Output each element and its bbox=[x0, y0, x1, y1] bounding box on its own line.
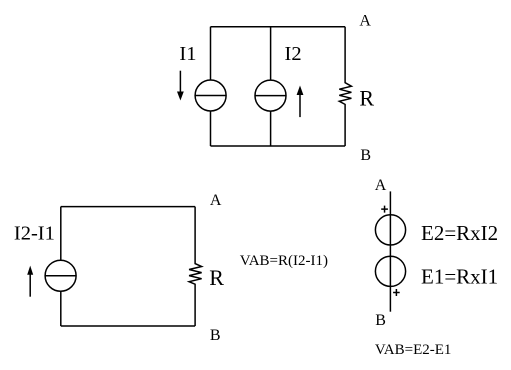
svg-text:I1: I1 bbox=[179, 43, 196, 65]
svg-text:A: A bbox=[359, 12, 371, 29]
svg-text:A: A bbox=[210, 192, 222, 209]
wire left branch (circuit 2) bbox=[60, 207, 62, 326]
arrow I1 direction (down) bbox=[177, 71, 184, 101]
svg-text:B: B bbox=[360, 147, 371, 164]
wire left branch (circuit 1) bbox=[210, 27, 212, 146]
wire top rail node A (circuit 1) bbox=[211, 26, 346, 28]
current source I2-I1 (circle with bar) bbox=[45, 260, 76, 291]
svg-text:I2-I1: I2-I1 bbox=[14, 223, 55, 245]
wire top rail node A (circuit 2) bbox=[61, 206, 195, 208]
wire vertical branch A-B (series E sources) bbox=[389, 191, 391, 311]
plus polarity mark of E2 bbox=[381, 206, 388, 213]
resistor R (circuit 1, right branch with zigzag) bbox=[339, 27, 351, 146]
voltage source E1 (circle) bbox=[375, 256, 405, 286]
svg-text:I2: I2 bbox=[285, 43, 302, 65]
voltage source E2 (circle) bbox=[375, 215, 405, 245]
plus polarity mark of E1 bbox=[393, 289, 400, 296]
arrow I2 direction (up) bbox=[297, 86, 304, 118]
svg-text:R: R bbox=[359, 85, 374, 110]
current source I1 (circle with bar) bbox=[195, 80, 226, 111]
svg-text:VAB=R(I2-I1): VAB=R(I2-I1) bbox=[240, 253, 328, 269]
svg-text:E2=RxI2: E2=RxI2 bbox=[421, 221, 498, 245]
current source I2 (circle with bar) bbox=[255, 80, 286, 111]
svg-text:B: B bbox=[375, 312, 386, 329]
svg-text:E1=RxI1: E1=RxI1 bbox=[421, 265, 498, 289]
wire bottom rail node B (circuit 2) bbox=[61, 325, 195, 327]
svg-text:VAB=E2-E1: VAB=E2-E1 bbox=[375, 342, 452, 358]
wire middle branch (circuit 1) bbox=[270, 27, 272, 146]
arrow I2-I1 direction (up) bbox=[27, 266, 33, 297]
svg-text:B: B bbox=[210, 327, 221, 344]
resistor R (circuit 2, right branch with zigzag) bbox=[189, 207, 202, 326]
wire bottom rail node B (circuit 1) bbox=[211, 145, 346, 147]
svg-text:R: R bbox=[209, 265, 224, 290]
svg-text:A: A bbox=[375, 177, 387, 194]
